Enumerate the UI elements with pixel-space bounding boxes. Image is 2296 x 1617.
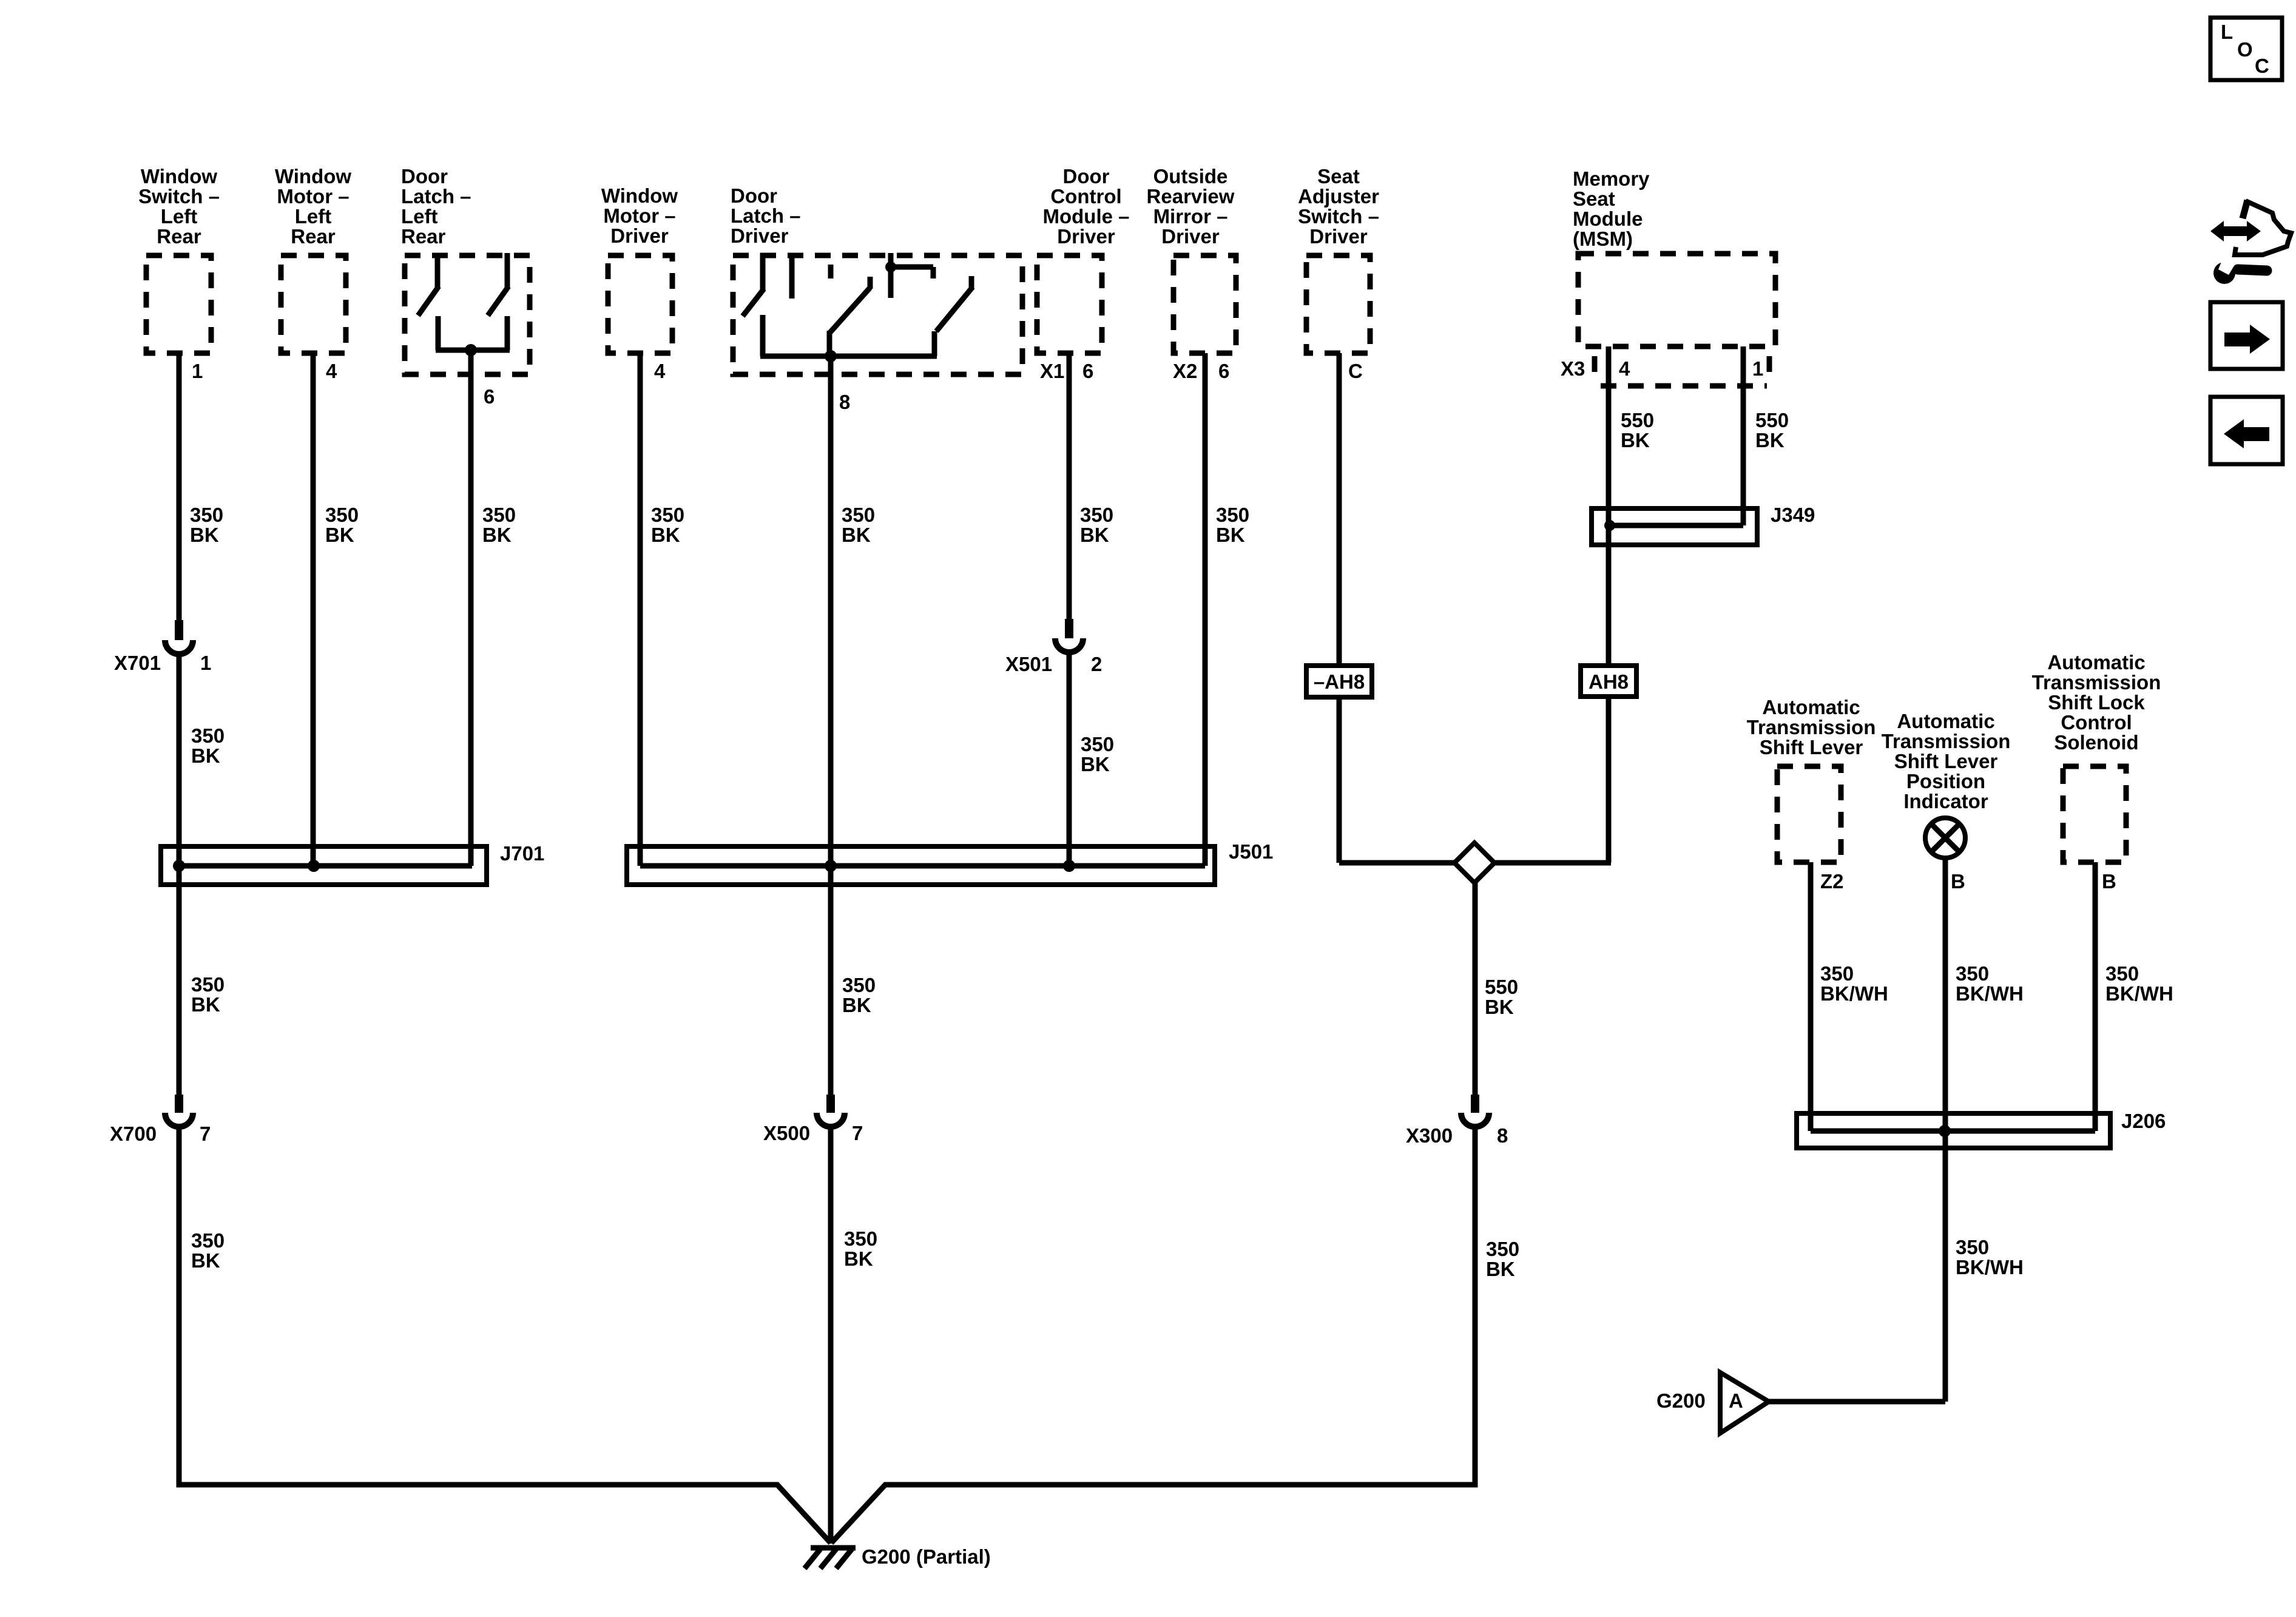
svg-text:Switch –: Switch – (1298, 205, 1379, 228)
svg-text:7: 7 (200, 1122, 211, 1145)
wire label 350 BK col5 below J501 (842, 974, 876, 1016)
label Door Latch - Driver (731, 184, 801, 247)
svg-text:Left: Left (161, 205, 198, 228)
svg-text:Memory: Memory (1573, 167, 1650, 190)
svg-text:550: 550 (1485, 976, 1518, 998)
wire label 350 BK col5 (842, 504, 875, 546)
svg-text:BK/WH: BK/WH (1956, 982, 2024, 1005)
label Door Control Module - Driver (1042, 165, 1129, 248)
svg-text:Driver: Driver (610, 224, 669, 247)
svg-text:350: 350 (191, 724, 225, 747)
svg-text:X2: X2 (1173, 360, 1197, 382)
component Window Motor - Driver (dashed box) (608, 255, 672, 353)
svg-text:1: 1 (192, 360, 203, 382)
svg-text:Z2: Z2 (1820, 870, 1844, 893)
wire Window Switch LR pin 1 to X701 (177, 353, 182, 620)
pin stub with junction in Door Latch - Driver (891, 253, 933, 298)
svg-text:X700: X700 (110, 1122, 157, 1145)
component Automatic Transmission Shift Lock Control Solenoid (dashed box) (2063, 766, 2126, 862)
splice pack J349 (1592, 508, 1757, 545)
label connector X500 pin 7 (763, 1122, 863, 1144)
svg-text:Rearview: Rearview (1147, 185, 1235, 208)
wire Outside Rearview Mirror pin 6 to J501 (1203, 353, 1208, 866)
svg-text:Door: Door (401, 165, 448, 187)
svg-text:Module: Module (1573, 208, 1643, 230)
component Outside Rearview Mirror - Driver (dashed box) (1173, 255, 1236, 353)
svg-text:BK: BK (191, 744, 220, 767)
wire Seat Adjuster Switch pin C through -AH8 to junction (1337, 353, 1342, 863)
wire J501 internal bus (640, 863, 1205, 869)
svg-text:350: 350 (482, 504, 516, 526)
connector X500 (817, 1095, 845, 1127)
pin X1 6 Door Control Module (1040, 360, 1093, 382)
wire diamond junction down to X300 (1473, 863, 1478, 1095)
label connector X700 pin 7 (110, 1122, 211, 1145)
svg-text:X501: X501 (1005, 653, 1052, 675)
wire J349 internal bus (1610, 523, 1743, 528)
svg-text:350: 350 (1486, 1238, 1519, 1260)
svg-text:Seat: Seat (1317, 165, 1360, 187)
svg-text:Driver: Driver (731, 224, 789, 247)
label Window Motor - Left Rear (275, 165, 351, 248)
diamond junction node (1454, 843, 1494, 883)
svg-text:Transmission: Transmission (1747, 716, 1876, 738)
wire label 350 BK/WH indicator (1956, 962, 2024, 1005)
switch blade 2 in Door Latch - Driver (829, 277, 870, 333)
wire Position Indicator pin B through J206 down (1943, 858, 1948, 1402)
svg-text:G200 (Partial): G200 (Partial) (862, 1545, 991, 1568)
svg-text:BK: BK (1755, 429, 1784, 451)
wire X300 to ground run (831, 1127, 1475, 1543)
svg-text:X300: X300 (1406, 1124, 1453, 1147)
svg-text:J501: J501 (1229, 840, 1273, 863)
svg-text:BK: BK (1485, 996, 1514, 1018)
svg-text:8: 8 (1497, 1124, 1508, 1147)
wire internal U bus in Door Latch - Left Rear (436, 316, 510, 350)
component Window Switch - Left Rear (dashed box) (146, 255, 211, 353)
wire Shift Lever pin Z2 to J206 (1808, 862, 1814, 1131)
svg-text:BK/WH: BK/WH (1956, 1256, 2024, 1278)
label connector X501 pin 2 (1005, 653, 1102, 675)
icon vehicle with double arrow and wrench (2210, 200, 2291, 284)
wire label 350 BK col5 below X500 (844, 1227, 877, 1270)
splice pack J501 (627, 846, 1215, 885)
svg-text:BK: BK (482, 524, 512, 546)
svg-text:350: 350 (2105, 962, 2139, 985)
wire Door Latch LR pin 6 to J701 (468, 350, 474, 866)
svg-text:Rear: Rear (401, 225, 446, 248)
fuse box -AH8 (1306, 666, 1372, 697)
switch contact 1 in Door Latch - Driver (743, 253, 764, 316)
svg-text:550: 550 (1755, 409, 1789, 431)
connector X700 (165, 1095, 193, 1127)
svg-text:4: 4 (1619, 357, 1630, 380)
label Door Latch - Left Rear (401, 165, 471, 248)
svg-text:BK: BK (190, 524, 219, 546)
component Seat Adjuster Switch - Driver (dashed box) (1306, 255, 1370, 353)
svg-text:Latch –: Latch – (401, 185, 471, 208)
component Door Latch - Driver (dashed box) (733, 253, 1022, 374)
junction dot at J501 wire X501 (1063, 860, 1075, 872)
svg-text:BK: BK (842, 994, 871, 1016)
icon LOC box (2210, 18, 2282, 80)
svg-text:X500: X500 (763, 1122, 810, 1144)
wire label 350 BK col3 (482, 504, 516, 546)
svg-text:350: 350 (842, 974, 876, 996)
ground reference triangle G200 A (1720, 1372, 1769, 1433)
wire label 350 BK below X701 (191, 724, 225, 767)
splice pack J206 (1797, 1113, 2110, 1148)
wire label 350 BK col1 below X700 (191, 1229, 225, 1272)
svg-text:J206: J206 (2121, 1110, 2166, 1132)
svg-text:BK: BK (651, 524, 680, 546)
wire label 350 BK col2 (325, 504, 359, 546)
svg-text:Module –: Module – (1042, 205, 1129, 228)
svg-text:550: 550 (1621, 409, 1654, 431)
svg-text:Automatic: Automatic (1762, 696, 1860, 718)
pin X3 4 1 MSM (1561, 357, 1763, 380)
svg-text:O: O (2237, 38, 2253, 61)
svg-text:B: B (2102, 870, 2116, 893)
junction dot at J501 wire (825, 860, 837, 872)
fuse box AH8 (1581, 666, 1636, 697)
pin X2 6 Outside Rearview Mirror (1173, 360, 1229, 382)
svg-text:4: 4 (326, 360, 337, 382)
svg-text:Shift Lever: Shift Lever (1894, 750, 1998, 772)
svg-text:AH8: AH8 (1589, 670, 1629, 693)
svg-text:Window: Window (141, 165, 217, 187)
wire Door Latch Driver pin 8 to J501 to X500 (828, 356, 834, 1095)
svg-text:J701: J701 (500, 842, 544, 865)
icon arrow left box (2210, 397, 2283, 464)
svg-text:Driver: Driver (1161, 225, 1220, 248)
label Automatic Transmission Shift Lever (1747, 696, 1876, 758)
wire Door Control Module pin 6 to X501 (1067, 353, 1072, 619)
label Seat Adjuster Switch - Driver (1298, 165, 1379, 248)
svg-text:350: 350 (191, 1229, 225, 1252)
svg-text:6: 6 (1082, 360, 1093, 382)
ground G200 (Partial) symbol (805, 1548, 856, 1568)
svg-text:Adjuster: Adjuster (1298, 185, 1379, 208)
connector X300 (1461, 1095, 1489, 1127)
svg-text:BK: BK (842, 524, 871, 546)
svg-text:Automatic: Automatic (1897, 710, 1994, 732)
svg-text:BK: BK (325, 524, 354, 546)
wire J206 run to G200 triangle (1769, 1399, 1945, 1405)
connector X501 (1055, 619, 1083, 652)
wire MSM X3 pin 1 to J349 (1741, 346, 1746, 525)
junction dot lower in Door Latch - Driver (825, 350, 837, 362)
svg-text:BK/WH: BK/WH (1820, 982, 1888, 1005)
switch contact 1 in Door Latch - Left Rear (418, 253, 439, 316)
svg-text:BK: BK (1621, 429, 1650, 451)
junction dot at J349 (1604, 520, 1615, 531)
dashed stub in Door Latch - Driver (828, 265, 834, 279)
svg-text:Control: Control (2061, 711, 2132, 734)
component Memory Seat Module MSM (dashed box) (1578, 254, 1775, 346)
svg-text:6: 6 (1218, 360, 1229, 382)
svg-text:1: 1 (200, 652, 211, 674)
svg-text:Latch –: Latch – (731, 204, 801, 227)
svg-text:C: C (1348, 360, 1363, 382)
component Door Latch - Left Rear (dashed box) (405, 253, 530, 374)
svg-text:Transmission: Transmission (2032, 671, 2161, 694)
wire label 550 BK MSM left (1621, 409, 1654, 451)
svg-text:Driver: Driver (1309, 225, 1368, 248)
svg-text:BK: BK (191, 993, 220, 1016)
svg-text:8: 8 (839, 391, 850, 413)
wire MSM X3 pin 4 through J349 and AH8 to junction (1606, 346, 1612, 863)
svg-text:350: 350 (1081, 733, 1114, 755)
svg-text:1: 1 (1752, 357, 1763, 380)
svg-text:L: L (2221, 21, 2233, 43)
svg-text:Position: Position (1906, 770, 1985, 792)
svg-text:BK: BK (1080, 524, 1109, 546)
icon arrow right box (2210, 302, 2283, 369)
svg-text:X1: X1 (1040, 360, 1064, 382)
junction dot at J701 wire 2 (308, 860, 320, 872)
label connector X701 pin 1 (114, 652, 211, 674)
wire internal U bus in Door Latch - Driver (760, 315, 937, 356)
svg-text:350: 350 (190, 504, 223, 526)
svg-text:Indicator: Indicator (1903, 790, 1988, 812)
junction dot at J206 (1939, 1125, 1951, 1137)
svg-text:350: 350 (1956, 1236, 1989, 1258)
svg-text:Driver: Driver (1057, 225, 1115, 248)
wire label 350 BK col4 (651, 504, 684, 546)
label Window Motor - Driver (601, 184, 678, 247)
wire Solenoid pin B to J206 (2093, 862, 2098, 1131)
svg-text:350: 350 (1216, 504, 1249, 526)
svg-text:Left: Left (401, 205, 438, 228)
svg-text:350: 350 (191, 973, 225, 996)
label Window Switch - Left Rear (138, 165, 220, 248)
junction dot in Door Latch - Left Rear (465, 344, 477, 356)
switch contact 2 in Door Latch - Left Rear (488, 253, 508, 316)
svg-text:BK: BK (191, 1249, 220, 1272)
svg-text:Rear: Rear (291, 225, 336, 248)
svg-text:Outside: Outside (1153, 165, 1228, 187)
wire label 350 BK/WH shift lever (1820, 962, 1888, 1005)
wire Window Motor Driver pin 4 to J501 (638, 353, 643, 866)
label connector X300 pin 8 (1406, 1124, 1508, 1147)
svg-text:Control: Control (1050, 185, 1121, 208)
wire label 550 BK below diamond (1485, 976, 1518, 1018)
svg-text:X701: X701 (114, 652, 161, 674)
svg-text:Shift Lever: Shift Lever (1760, 736, 1863, 758)
svg-text:BK: BK (1216, 524, 1245, 546)
svg-text:2: 2 (1091, 653, 1102, 675)
svg-text:350: 350 (1080, 504, 1113, 526)
wire X501 to J501 (1067, 652, 1072, 866)
svg-text:350: 350 (1956, 962, 1989, 985)
svg-text:Seat: Seat (1573, 187, 1615, 210)
svg-text:350: 350 (325, 504, 359, 526)
wire X500 to ground G200 (828, 1127, 834, 1544)
connector X701 (165, 620, 193, 654)
svg-text:BK: BK (1486, 1258, 1515, 1280)
svg-text:BK: BK (844, 1247, 873, 1270)
wire label 350 BK/WH below J206 (1956, 1236, 2024, 1278)
svg-text:6: 6 (484, 385, 495, 408)
wire X701 to J701 to X700 (177, 654, 182, 1095)
svg-text:A: A (1729, 1389, 1743, 1412)
label Outside Rearview Mirror - Driver (1147, 165, 1235, 248)
svg-text:350: 350 (1820, 962, 1854, 985)
wire label 350 BK col1 below J701 (191, 973, 225, 1016)
label Automatic Transmission Shift Lever Position Indicator (1882, 710, 2011, 812)
svg-text:Window: Window (275, 165, 351, 187)
svg-text:Transmission: Transmission (1882, 730, 2011, 752)
svg-text:350: 350 (844, 1227, 877, 1250)
svg-text:Door: Door (1063, 165, 1110, 187)
wire J701 internal bus (179, 863, 472, 869)
svg-text:Motor –: Motor – (277, 185, 349, 208)
svg-text:Rear: Rear (157, 225, 201, 248)
svg-text:X3: X3 (1561, 357, 1585, 380)
svg-text:(MSM): (MSM) (1573, 228, 1633, 250)
svg-text:BK: BK (1081, 753, 1110, 775)
svg-text:BK/WH: BK/WH (2105, 982, 2173, 1005)
wire label 350 BK below X501 (1081, 733, 1114, 775)
label Memory Seat Module (MSM) (1573, 167, 1650, 250)
wire label 350 BK/WH solenoid (2105, 962, 2173, 1005)
wire label 550 BK MSM right (1755, 409, 1789, 451)
svg-text:Automatic: Automatic (2047, 651, 2145, 673)
junction dot at J701 wire 1 (173, 860, 185, 872)
component Automatic Transmission Shift Lever (dashed box) (1777, 766, 1841, 862)
svg-text:C: C (2255, 55, 2269, 77)
svg-text:350: 350 (651, 504, 684, 526)
svg-text:Solenoid: Solenoid (2054, 731, 2138, 754)
svg-text:Motor –: Motor – (603, 204, 675, 227)
switch blade 3 in Door Latch - Driver (936, 276, 973, 331)
svg-text:–AH8: –AH8 (1314, 670, 1365, 693)
junction dot upper in Door Latch - Driver (885, 262, 896, 272)
component Window Motor - Left Rear (dashed box) (281, 255, 346, 353)
contact stub in Door Latch - Driver (789, 253, 795, 299)
svg-text:G200: G200 (1656, 1389, 1706, 1412)
splice pack J701 (161, 846, 487, 885)
wire X700 to ground run (179, 1127, 831, 1543)
wire label 350 BK col7 (1216, 504, 1249, 546)
wire Window Motor LR pin 4 to J701 (311, 353, 316, 866)
svg-text:7: 7 (852, 1122, 863, 1144)
svg-text:Shift Lock: Shift Lock (2048, 691, 2145, 714)
svg-text:Door: Door (731, 184, 777, 207)
component Door Control Module - Driver (dashed box) (1037, 255, 1102, 353)
wire horizontal run to diamond junction (1339, 860, 1611, 866)
svg-text:Left: Left (295, 205, 332, 228)
wire label 350 BK col6 (1080, 504, 1113, 546)
svg-text:J349: J349 (1771, 504, 1815, 526)
label Automatic Transmission Shift Lock Control Solenoid (2032, 651, 2161, 754)
svg-text:350: 350 (842, 504, 875, 526)
wire J206 internal bus (1811, 1129, 2095, 1134)
connector X3 strip of MSM (1595, 356, 1769, 386)
svg-text:4: 4 (654, 360, 666, 382)
wire label 350 BK below X300 (1486, 1238, 1519, 1280)
lamp Automatic Transmission Shift Lever Position Indicator (1925, 818, 1965, 858)
svg-text:Window: Window (601, 184, 678, 207)
svg-text:Switch –: Switch – (138, 185, 220, 208)
wire label 350 BK col1 upper (190, 504, 223, 546)
svg-text:B: B (1951, 870, 1965, 893)
svg-text:Mirror –: Mirror – (1153, 205, 1228, 228)
